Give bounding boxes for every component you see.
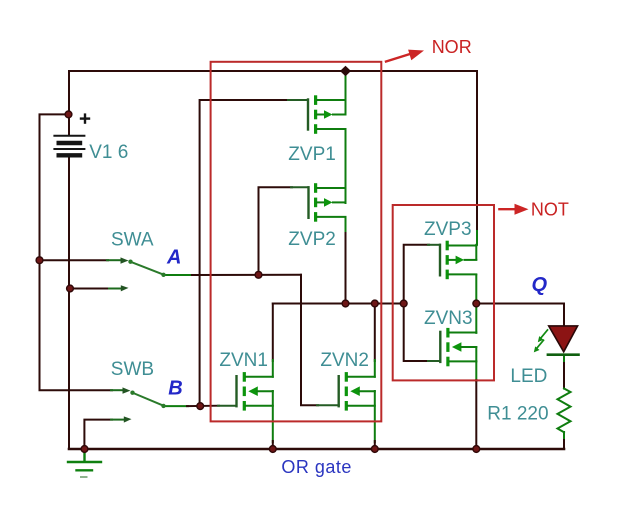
NOT pointer arrow (499, 204, 528, 215)
wire NOR output node horizontal (273, 303, 404, 305)
junction node ground at battery (81, 446, 88, 453)
wire ZVP3 body tie (green) (475, 245, 477, 260)
wire ZVP3 drain down to output node (green) (475, 275, 477, 304)
wire battery minus lead down to bottom rail (68, 157, 70, 450)
wire ZVN1 source to ground rail (272, 441, 274, 449)
transistor ZVP3 (PMOS) (440, 241, 476, 280)
junction node NOR output at ZVP2 drain (342, 300, 349, 307)
wire ZVP3 gate pin (dark green) (428, 244, 440, 246)
wire ZVP2 drain down to NOR output node (345, 233, 347, 304)
svg-text:ZVP3: ZVP3 (424, 219, 472, 240)
junction node B at SWB output (197, 403, 204, 410)
junction node ground at ZVN1 source (269, 446, 276, 453)
wire node B ZVP1 gate pin (dark green) (288, 99, 308, 101)
NOR pointer arrow (386, 50, 424, 62)
transistor ZVN3 (NMOS) (440, 328, 476, 366)
wire top VDD rail (69, 70, 477, 72)
junction node VDD rail diamond (340, 66, 351, 76)
svg-text:NOR: NOR (432, 37, 472, 57)
svg-text:B: B (168, 378, 182, 400)
wire SWA bottom throw pin (green) (109, 288, 121, 290)
wire node B ZVN1 gate pin (dark green) (218, 405, 237, 407)
wire node Q down to LED anode (563, 304, 565, 327)
wire node A horizontal (192, 274, 301, 276)
wire ZVN3 gate pin (dark green) (428, 360, 440, 362)
wire battery plus lead up to rail (68, 71, 70, 135)
junction node SWA top throw tap (36, 257, 43, 264)
wire NOT input gate down branch to ZVN3 (404, 304, 429, 362)
wire node A ZVN2 gate pin (dark green) (317, 404, 339, 406)
wire node Q output horizontal (476, 303, 564, 305)
junction node NOR output at ZVN2 drain (371, 300, 378, 307)
wire ZVP1 drain to ZVP2 source (green) (345, 129, 347, 203)
transistor ZVP1 (PMOS) (308, 95, 346, 134)
wire ZVP2 drain down pin (green) (345, 218, 347, 235)
switch SWB throw arrow top (123, 387, 131, 393)
wire VDD right drop pin (green) (476, 231, 478, 245)
LED cathode bar (548, 353, 579, 356)
wire SWA top throw from bypass dot (40, 259, 109, 261)
wire ZVN3 source down to ground rail (475, 380, 477, 449)
transistor ZVP2 (PMOS) (309, 183, 346, 222)
battery V1 plate2 (59, 141, 80, 145)
svg-text:R1 220: R1 220 (487, 403, 548, 424)
wire resistor R1 bottom pin (green) (563, 432, 565, 441)
battery V1 plus sign (81, 115, 89, 123)
wire node A up branch to ZVP2 gate (259, 187, 293, 274)
ground symbol (68, 449, 101, 477)
svg-text:ZVN3: ZVN3 (424, 308, 473, 329)
svg-text:V1 6: V1 6 (89, 142, 128, 163)
wire ZVN1 body and source tie down (green) (272, 391, 274, 442)
transistor ZVN2 (NMOS) (339, 372, 375, 411)
wire ZVN3 drain up to output node (green) (475, 304, 477, 333)
wire SWB top throw pin (green) (111, 389, 123, 391)
wire ZVN1 drain up to NOR output (272, 304, 274, 362)
svg-text:ZVN2: ZVN2 (320, 350, 369, 371)
wire node B output of SWB (green pin) (166, 405, 189, 407)
svg-text:LED: LED (510, 366, 547, 387)
svg-text:SWB: SWB (111, 359, 154, 380)
wire node A ZVP2 gate pin (dark green) (291, 186, 309, 188)
battery V1 plate1 (54, 135, 84, 137)
junction node A branch (255, 271, 262, 278)
wire ZVN2 drain up to NOR output (374, 304, 376, 362)
junction node ground at ZVN3 source (473, 446, 480, 453)
wire node A output of SWA (green pin) (166, 274, 194, 276)
wire SWB bottom throw L from ground rail (84, 420, 112, 449)
battery V1 plate4 (59, 153, 80, 157)
LED light arrow 2 (534, 340, 544, 352)
switch SWA throw arrow bottom (121, 285, 129, 291)
wire LED cathode to resistor R1 (563, 363, 565, 389)
wire VDD right drop to ZVP3 source (476, 71, 478, 232)
switch SWB arm (130, 391, 165, 409)
wire ZVP1 body tie (green) (345, 100, 347, 115)
switch SWA arm (128, 260, 165, 277)
junction node ground at ZVN2 source (371, 446, 378, 453)
wire ZVN3 source down pin (green) (475, 361, 477, 381)
svg-text:ZVN1: ZVN1 (219, 350, 268, 371)
svg-text:SWA: SWA (111, 229, 154, 250)
svg-text:NOT: NOT (531, 200, 569, 220)
svg-text:ZVP1: ZVP1 (288, 144, 336, 165)
wire ZVN3 body tie (green) (475, 347, 477, 361)
wire bypass from battery plus to switch throws (40, 114, 113, 390)
junction node Q at NOT output (473, 300, 480, 307)
wire LED cathode pin (green) (563, 355, 565, 364)
resistor R1 zigzag (558, 389, 571, 433)
wire node B horizontal to ZVN1 gate (187, 405, 219, 407)
svg-text:ZVP2: ZVP2 (288, 229, 336, 250)
wire node B up branch to ZVP1 gate (200, 100, 289, 406)
wire resistor R1 to ground rail (563, 440, 565, 449)
svg-text:OR gate: OR gate (281, 457, 352, 477)
junction node NOT input (400, 300, 407, 307)
NOR gate red box (211, 62, 382, 422)
wire SWA bottom throw from battery minus dot (70, 288, 110, 290)
wire ZVN2 source to ground rail (374, 441, 376, 449)
switch SWA throw arrow top (121, 257, 129, 263)
LED light arrow 1 (538, 330, 548, 342)
junction node SWA bottom throw tap (67, 285, 74, 292)
battery V1 plate3 (54, 148, 84, 150)
junction node battery plus (65, 111, 72, 118)
wire ZVN1 drain pin (green) (272, 360, 274, 377)
svg-text:A: A (166, 246, 181, 268)
wire NOT input gate up branch to ZVP3 (404, 245, 429, 304)
NOT gate red box (393, 205, 494, 380)
wire node A down branch to ZVN2 gate (301, 275, 318, 405)
LED D1 triangle (549, 326, 578, 352)
wire ZVN2 drain pin (green) (374, 360, 376, 377)
switch SWB throw arrow bottom (124, 416, 132, 422)
wire SWA top throw pin (green) (107, 259, 121, 261)
wire ZVP1 source to VDD rail (green) (345, 72, 347, 100)
wire bottom ground rail (69, 448, 564, 451)
svg-text:Q: Q (532, 274, 548, 296)
wire ZVN2 body and source tie down (green) (374, 391, 376, 442)
transistor ZVN1 (NMOS) (237, 372, 273, 411)
wire SWB bottom throw pin (green) (111, 419, 124, 421)
